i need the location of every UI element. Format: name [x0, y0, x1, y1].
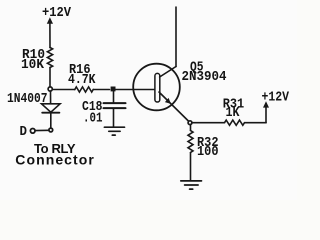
wire C18 top lead	[113, 91, 115, 102]
svg-text:D: D	[20, 124, 28, 140]
wire R32 to ground	[190, 153, 192, 181]
node B (junction square at C18 tap)	[111, 87, 116, 92]
svg-text:+12V: +12V	[262, 90, 290, 106]
wire node B to transistor base	[114, 89, 156, 91]
ground (under C18)	[104, 127, 124, 135]
resistor R10	[47, 48, 52, 68]
svg-text:2N3904: 2N3904	[182, 69, 227, 85]
wire node E to R32	[190, 125, 192, 131]
wire R16 to node B	[93, 89, 109, 91]
terminal D (open circle)	[30, 129, 35, 134]
transistor Q5 base bar	[155, 73, 160, 102]
svg-text:.01: .01	[83, 111, 103, 127]
wire R10 to node A	[49, 68, 51, 88]
diode D1 1N4007	[42, 104, 61, 113]
capacitor C18	[104, 103, 126, 108]
wire C18 bottom lead	[113, 109, 115, 126]
arrow up to +12V (left)	[47, 17, 53, 47]
arrow up to +12V (right)	[263, 101, 269, 123]
wire node A to diode	[50, 91, 52, 104]
svg-text:+12V: +12V	[42, 5, 72, 21]
svg-text:4.7K: 4.7K	[68, 72, 96, 88]
node E (emitter junction circle)	[188, 121, 192, 125]
ground (under R32)	[181, 181, 202, 189]
wire node C to D terminal	[35, 129, 49, 131]
emitter arrowhead	[165, 98, 171, 104]
wire emitter lead diagonal	[159, 92, 190, 123]
node A (junction circle)	[48, 87, 52, 91]
resistor R32	[188, 131, 193, 153]
resistor R31	[225, 120, 245, 125]
wire node E to R31	[192, 122, 225, 124]
svg-text:100: 100	[197, 144, 219, 160]
wire R31 to +12V arrow	[245, 122, 267, 124]
wire diode to node C	[50, 113, 52, 128]
transistor Q5 body circle	[133, 64, 180, 111]
wire collector lead diagonal	[160, 67, 176, 78]
node C (junction circle above D terminal wire)	[49, 128, 53, 132]
svg-text:10K: 10K	[21, 57, 45, 73]
wire node A to R16	[52, 89, 75, 91]
wire collector up	[175, 7, 177, 67]
resistor R16	[75, 87, 93, 92]
svg-text:Connector: Connector	[15, 151, 94, 167]
